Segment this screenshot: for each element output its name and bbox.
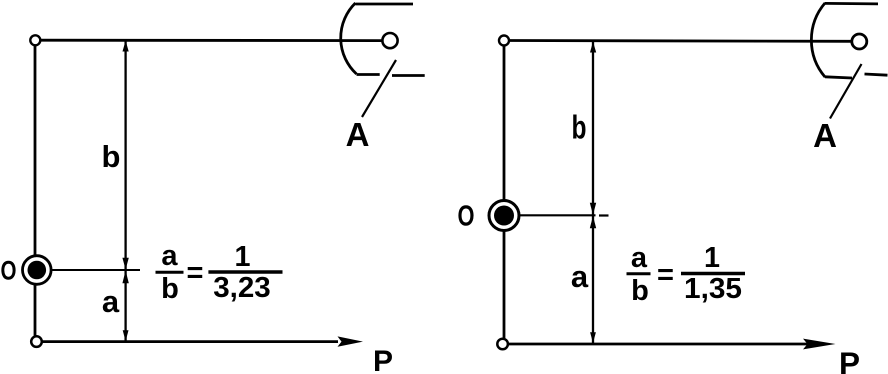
svg-text:1: 1 [235, 241, 251, 273]
svg-text:1: 1 [704, 242, 720, 274]
svg-text:b: b [572, 110, 587, 147]
svg-text:O: O [1, 256, 17, 286]
svg-text:a: a [102, 284, 120, 319]
svg-text:b: b [631, 275, 649, 307]
svg-text:3,23: 3,23 [213, 272, 271, 304]
svg-text:a: a [571, 259, 589, 294]
svg-text:A: A [346, 116, 370, 153]
svg-text:=: = [657, 259, 674, 291]
svg-text:a: a [631, 242, 648, 274]
svg-text:=: = [187, 257, 204, 289]
svg-text:1,35: 1,35 [684, 273, 742, 305]
svg-text:O: O [458, 201, 475, 233]
svg-text:P: P [373, 345, 393, 374]
svg-text:A: A [813, 117, 837, 154]
svg-text:b: b [102, 139, 121, 174]
svg-text:a: a [161, 240, 178, 272]
svg-text:b: b [161, 273, 179, 305]
svg-text:P: P [839, 345, 860, 374]
